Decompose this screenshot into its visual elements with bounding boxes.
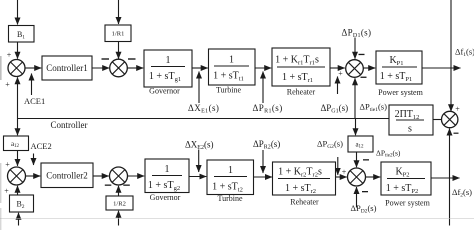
box Controller1 xyxy=(42,56,92,80)
svg-text:Controller2: Controller2 xyxy=(46,171,88,181)
svg-text:1/R1: 1/R1 xyxy=(112,31,125,38)
wire tie line up into J1 xyxy=(17,77,19,118)
sign plus marks xyxy=(4,51,460,196)
box Reheater2 xyxy=(273,162,336,195)
box Power system1 xyxy=(376,51,422,84)
svg-text:Δf1(s): Δf1(s) xyxy=(455,47,474,59)
wire DPG2 pointer xyxy=(337,157,339,175)
box Governor2 xyxy=(145,159,189,193)
svg-text:Turbine: Turbine xyxy=(217,194,242,203)
svg-text:Δf2(s): Δf2(s) xyxy=(452,187,472,199)
svg-text:ΔPR1(s): ΔPR1(s) xyxy=(253,103,283,115)
svg-text:+: + xyxy=(342,168,347,177)
wire Df2 feed up into B2 xyxy=(18,213,20,226)
wire DPR2 pointer xyxy=(262,150,264,173)
svg-text:1: 1 xyxy=(165,164,170,175)
svg-text:+: + xyxy=(455,105,460,114)
wire J7 to tie box xyxy=(433,119,442,121)
wire ACE1 pointer xyxy=(31,74,33,96)
svg-text:ΔPG2(s): ΔPG2(s) xyxy=(317,139,343,151)
box inner texts xyxy=(11,30,419,210)
box 1/R1 xyxy=(105,25,131,42)
wire DPR1 pointer xyxy=(262,72,264,104)
box B1 xyxy=(9,26,35,43)
svg-text:Governor: Governor xyxy=(149,87,180,96)
sign minus J7 bottom xyxy=(454,133,459,134)
sign minus J3 top xyxy=(359,54,365,55)
svg-text:s: s xyxy=(408,124,412,135)
wire J3 to Power system1 xyxy=(364,67,376,69)
svg-text:ΔPD2(s): ΔPD2(s) xyxy=(351,203,377,215)
box Controller2 xyxy=(41,163,93,188)
wire J2 to Governor1 xyxy=(128,67,144,69)
sign minus J5 right xyxy=(123,185,130,186)
svg-text:ΔPG1(s): ΔPG1(s) xyxy=(321,103,349,115)
svg-text:1/R2: 1/R2 xyxy=(113,201,126,208)
wire Df2 branch up into J7 xyxy=(449,129,451,226)
wire a12 mid down to J6 xyxy=(356,152,358,167)
wire J1 to Controller1 xyxy=(26,67,42,69)
svg-text:ΔXE1(s): ΔXE1(s) xyxy=(188,103,219,115)
svg-text:+: + xyxy=(338,69,343,78)
svg-text:ΔPD1(s): ΔPD1(s) xyxy=(342,28,372,40)
wire DXE2 pointer xyxy=(198,150,200,173)
wire Turbine1 to Reheater1 xyxy=(255,67,271,69)
wire top feed into 1/R1 xyxy=(118,0,120,24)
wire DPD2 disturbance into J6 xyxy=(356,187,358,208)
wire DPG1 pointer xyxy=(337,77,339,95)
box Turbine1 xyxy=(209,49,256,85)
wire B1 to J1 xyxy=(17,42,19,59)
signal labels xyxy=(24,28,474,215)
svg-text:1: 1 xyxy=(228,165,233,176)
svg-text:ΔPR2(s): ΔPR2(s) xyxy=(253,139,280,151)
summing junction J1 xyxy=(8,60,25,77)
wire J4 to Controller2 xyxy=(26,175,40,177)
wire tie branch down to a12 mid xyxy=(355,119,357,136)
wire Df1 branch down to J7 xyxy=(450,0,452,111)
wire Controller2 to J5 xyxy=(93,175,109,177)
summing junction J2 xyxy=(110,59,128,77)
wire tie line up into J3 xyxy=(354,78,356,118)
sign minus dashes xyxy=(102,54,459,193)
wire tie line down into a12 left xyxy=(17,119,19,136)
artifact left edge smudge bottom xyxy=(0,208,1,230)
sign minus J5 left xyxy=(105,185,112,186)
box a12 left xyxy=(4,136,29,151)
box B2 xyxy=(10,195,34,212)
wire Df2 feed up into 1/R2 xyxy=(118,211,120,226)
wire J6 to Power system2 xyxy=(366,176,381,178)
wire Controller1 to J2 xyxy=(92,67,109,69)
svg-text:Power system: Power system xyxy=(385,198,430,207)
wire Power system2 output Df2 xyxy=(431,177,460,179)
box Power system2 xyxy=(381,162,431,195)
box Reheater1 xyxy=(272,48,330,86)
sign minus J2 left xyxy=(102,58,110,59)
artifact left edge smudge lower xyxy=(0,163,1,203)
wire Reheater2 to J6 xyxy=(336,176,347,178)
summing junction J6 xyxy=(348,168,366,186)
summing junction J3 xyxy=(346,60,364,78)
box tie 2PIT12/s xyxy=(389,105,433,135)
wire B2 up into J4 xyxy=(17,186,19,195)
svg-text:1: 1 xyxy=(166,55,171,66)
artifact left edge smudge upper xyxy=(0,56,2,80)
scan artifacts xyxy=(0,56,474,230)
svg-text:Controller: Controller xyxy=(51,120,88,130)
svg-text:Reheater: Reheater xyxy=(290,198,319,207)
wire Turbine2 to Reheater2 xyxy=(254,176,273,178)
wire 1/R1 to J2 xyxy=(118,42,120,59)
svg-text:+: + xyxy=(4,187,9,196)
svg-text:ΔPtie1(s): ΔPtie1(s) xyxy=(360,102,388,114)
svg-text:ΔXE2(s): ΔXE2(s) xyxy=(185,140,213,152)
box a12 mid xyxy=(348,136,373,152)
wire Governor2 to Turbine2 xyxy=(189,176,206,178)
svg-text:+: + xyxy=(5,80,10,89)
svg-text:1: 1 xyxy=(229,55,234,66)
wire Governor1 to Turbine1 xyxy=(192,67,208,69)
svg-text:ACE2: ACE2 xyxy=(31,141,52,151)
svg-text:+: + xyxy=(5,160,10,169)
svg-text:ΔPtie2(s): ΔPtie2(s) xyxy=(376,148,401,158)
sign minus J2 right xyxy=(128,58,136,59)
svg-text:+: + xyxy=(7,51,12,60)
wire ACE2 pointer xyxy=(33,154,35,166)
svg-text:Turbine: Turbine xyxy=(216,86,241,95)
wire Reheater1 to J3 xyxy=(330,67,345,69)
sign minus J6 bottom xyxy=(362,191,368,192)
captions under boxes xyxy=(149,86,430,208)
sign minus J3 bottom xyxy=(361,77,367,78)
wire top feed into B1 xyxy=(17,0,19,25)
sign minus J6 top xyxy=(363,159,369,160)
wire tie long horizontal line xyxy=(18,118,390,120)
svg-text:Governor: Governor xyxy=(150,193,181,202)
fraction bars xyxy=(151,66,425,179)
svg-text:Controller1: Controller1 xyxy=(46,63,88,73)
wire J5 to Governor2 xyxy=(128,175,145,177)
summing junction J7 tie xyxy=(442,111,458,127)
wire Power system1 output Df1 xyxy=(422,67,461,69)
box Governor1 xyxy=(144,50,192,87)
summing junction J4 xyxy=(8,167,26,185)
svg-text:Reheater: Reheater xyxy=(287,87,316,96)
wire 1/R2 up into J5 xyxy=(118,186,120,196)
svg-text:Power system: Power system xyxy=(378,88,423,97)
wire a12 left to J4 xyxy=(17,151,19,166)
summing junction J5 xyxy=(110,167,128,185)
svg-text:ACE1: ACE1 xyxy=(24,96,45,106)
box Turbine2 xyxy=(207,160,254,195)
artifact grey line bottom xyxy=(0,217,474,220)
wire DPD1 disturbance into J3 xyxy=(354,38,356,59)
box 1/R2 xyxy=(106,196,133,210)
wire DXE1 pointer xyxy=(198,72,200,104)
